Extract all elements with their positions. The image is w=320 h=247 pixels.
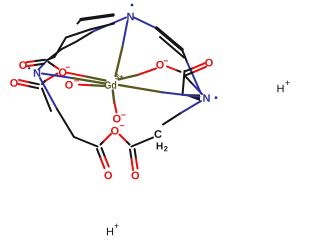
wire: C2 stub down (42, 89, 51, 112)
wedge bond: V1 to N_right (182, 94, 201, 101)
atom O_d (10, 79, 18, 87)
double bond: C4 = O_g (97, 148, 109, 168)
atom N_top with lone pair dot (127, 4, 133, 21)
bond: Gd to O_e minus below (olive/red) (113, 91, 117, 113)
bond: CH2 label to C5 (132, 138, 154, 147)
wire: upper lens line from C1 to N_top (47, 24, 114, 61)
bond: C3 to N_right (black/blue) (186, 77, 203, 95)
wire: long bond N_left to N_top (blue ends, black middle) (39, 18, 127, 70)
atom O_h (131, 172, 139, 180)
double bond: O_d = C2 (19, 80, 39, 88)
bond: N_left to Gd coordination (blue/olive) (42, 74, 105, 84)
bond: Gd to N_right coordination (olive/blue) (119, 85, 200, 97)
atom O_a (19, 61, 27, 69)
atom N_left with lone pair dot (28, 67, 40, 77)
ion H+ bottom (107, 224, 119, 236)
atom N_right with lone pair dot (203, 94, 217, 102)
bold bond: top CH2-CH2 bridge (bold wedge) (78, 15, 114, 24)
atom C of CH2 label (154, 130, 167, 151)
bond: O_b to C2 (42, 74, 58, 85)
ion H+ right (277, 81, 289, 93)
atom O_j (205, 59, 213, 67)
bond: O_b to Gd coordination (red/olive) (67, 73, 106, 81)
wire: bridge down to N_right (black then blue) (182, 50, 201, 94)
bond: O_f to C5 (120, 135, 130, 145)
atom O_g (104, 171, 112, 179)
atom O_f minus (111, 125, 124, 134)
bond: N_top to CH2 bridge right (blue then bold black wedge) (134, 18, 184, 58)
atom O_e minus (113, 115, 126, 123)
bond: C1 to O_b minus (49, 62, 59, 69)
atom O_b minus (59, 67, 70, 76)
double bond: C5 = O_h (130, 149, 138, 170)
bond: O_c to Gd coordination (red/olive) (79, 85, 105, 86)
bond: N_left to CH2b (blue/black) (40, 78, 74, 137)
bond: N_top to Gd coordination (blue/olive) (116, 21, 128, 76)
bond: CH2b to C4 (74, 137, 98, 147)
double bond: C3 = O_j (185, 63, 207, 75)
atom O_c minus (65, 80, 79, 88)
bond: N_right to CH2 label (blue/black) (163, 101, 201, 125)
bond: O_i to Gd coordination (red/olive) (119, 69, 157, 80)
atom Gd3+ (105, 74, 123, 89)
bond: C3 to O_i minus (167, 67, 181, 72)
double bond: O_a = C1 (27, 60, 46, 66)
bond: C4 to O_f minus (101, 134, 112, 145)
bond: C3 down to CH2 V1 (183, 71, 185, 95)
atom O_i minus (156, 60, 168, 68)
